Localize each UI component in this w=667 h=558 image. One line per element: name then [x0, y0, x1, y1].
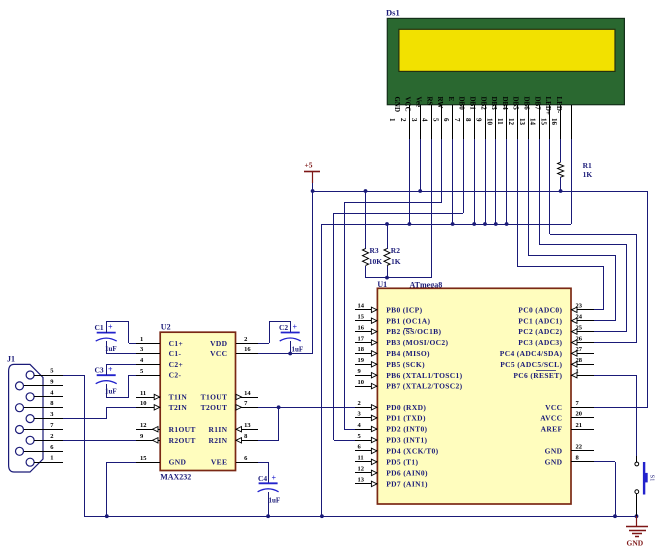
wire switch S1 bottom to ground rail	[636, 494, 638, 516]
chip U1 ATmega8 body	[377, 288, 571, 504]
svg-text:DB0: DB0	[458, 97, 466, 111]
wire C4 bottom to ground rail	[266, 492, 270, 518]
svg-text:R1OUT: R1OUT	[169, 425, 196, 434]
wire R3 top from +5 rail	[364, 189, 368, 249]
svg-text:13: 13	[518, 118, 526, 126]
svg-text:R1: R1	[583, 161, 592, 170]
svg-text:DB3: DB3	[490, 97, 498, 111]
svg-text:22: 22	[576, 444, 583, 451]
chip U1 left pin stubs with numbers	[355, 303, 377, 487]
svg-text:2: 2	[50, 433, 53, 440]
svg-text:17: 17	[358, 335, 365, 342]
svg-text:13: 13	[358, 477, 365, 484]
svg-text:PB3 (MOSI/OC2): PB3 (MOSI/OC2)	[386, 338, 448, 347]
svg-text:1uF: 1uF	[292, 346, 304, 354]
svg-text:9: 9	[475, 118, 483, 122]
svg-text:14: 14	[244, 390, 251, 397]
svg-text:3: 3	[410, 118, 418, 122]
wire C3 bottom to U2 C2-	[106, 375, 136, 398]
svg-text:T1IN: T1IN	[169, 393, 188, 402]
svg-text:15: 15	[358, 314, 365, 321]
connector J1 DB9 shell	[9, 364, 43, 472]
svg-text:27: 27	[576, 346, 583, 353]
wire R2 bottom	[387, 266, 389, 278]
resistor R1	[558, 161, 593, 179]
connector J1 pins and circles	[16, 368, 64, 467]
LCD display Ds1 body	[387, 18, 624, 104]
svg-text:AREF: AREF	[541, 425, 563, 434]
svg-text:R2IN: R2IN	[208, 436, 227, 445]
svg-text:14: 14	[529, 118, 537, 126]
svg-text:1K: 1K	[391, 257, 401, 266]
wire U1 GND pin8 to ground rail	[594, 462, 617, 519]
wire divider node to LCD Vee	[366, 276, 431, 280]
svg-text:LED-: LED-	[555, 97, 563, 114]
svg-text:14: 14	[358, 303, 365, 310]
chip U2 left pins	[136, 336, 196, 467]
svg-text:PC1 (ADC1): PC1 (ADC1)	[518, 316, 562, 325]
svg-text:R2OUT: R2OUT	[169, 436, 196, 445]
svg-text:PC6 (RESET): PC6 (RESET)	[513, 371, 562, 380]
svg-text:28: 28	[576, 357, 583, 364]
svg-text:DB4: DB4	[501, 97, 509, 111]
svg-text:C1-: C1-	[169, 349, 182, 358]
wire U2 T2OUT to U1 PD0	[258, 405, 355, 409]
connector J1 designator	[7, 355, 15, 364]
wire C3 top to U2 C2+	[106, 364, 136, 375]
capacitor C1	[95, 323, 117, 353]
svg-text:10K: 10K	[369, 257, 383, 266]
wire J1 pin2 to U2 R2OUT	[63, 440, 136, 442]
svg-text:10: 10	[140, 400, 147, 407]
svg-text:PB7 (XTAL2/TOSC2): PB7 (XTAL2/TOSC2)	[386, 382, 462, 391]
svg-text:12: 12	[507, 118, 515, 126]
wire U1 PC6 to switch	[594, 375, 637, 456]
svg-text:16: 16	[358, 324, 365, 331]
svg-text:+: +	[108, 365, 113, 374]
svg-text:VCC: VCC	[404, 97, 412, 112]
svg-text:15: 15	[140, 455, 147, 462]
svg-text:PC0 (ADC0): PC0 (ADC0)	[518, 305, 562, 314]
svg-text:C4: C4	[258, 474, 267, 483]
svg-text:Vee: Vee	[415, 97, 423, 108]
svg-text:DB7: DB7	[533, 97, 541, 111]
svg-text:10: 10	[485, 118, 493, 126]
wire LCD pin9 D2 to ground rail	[494, 139, 498, 226]
chip U1 name	[410, 281, 443, 290]
svg-text:PB5 (SCK): PB5 (SCK)	[386, 360, 425, 369]
svg-text:+: +	[272, 474, 277, 483]
wire LCD pin10 D3 to ground rail	[505, 139, 509, 226]
svg-text:PC5 (ADC5/SCL): PC5 (ADC5/SCL)	[500, 360, 562, 369]
svg-text:VEE: VEE	[211, 458, 227, 467]
capacitor C4	[258, 474, 281, 505]
svg-text:LED+: LED+	[544, 97, 552, 115]
svg-text:10: 10	[358, 379, 365, 386]
wire LCD pin16 L- to ground rail	[571, 139, 573, 224]
svg-text:DB2: DB2	[479, 97, 487, 111]
wire J1 pin3 to U2 T2IN	[63, 407, 136, 419]
svg-text:19: 19	[358, 357, 365, 364]
svg-text:PD5 (T1): PD5 (T1)	[386, 458, 418, 467]
svg-text:RW: RW	[436, 97, 444, 109]
wire ground rail upper	[320, 224, 571, 518]
svg-text:PD0 (RXD): PD0 (RXD)	[386, 403, 426, 412]
svg-text:E: E	[447, 97, 455, 102]
svg-text:16: 16	[244, 346, 251, 353]
wire R2 top from ground rail	[385, 222, 389, 249]
LCD display Ds1 label	[386, 8, 400, 18]
svg-text:U2: U2	[161, 323, 171, 332]
svg-text:S1: S1	[649, 475, 656, 482]
wire +5 feed to U2 VCC	[258, 191, 313, 355]
ground symbol GND	[626, 516, 648, 548]
svg-text:21: 21	[576, 422, 583, 429]
svg-text:PB2 (SS/OC1B): PB2 (SS/OC1B)	[386, 327, 441, 336]
wire T2OUT node to R2IN	[258, 407, 279, 441]
chip U2 MAX232 body	[160, 332, 235, 470]
svg-text:C1+: C1+	[169, 339, 184, 348]
wire RS rail	[344, 202, 442, 430]
svg-text:11: 11	[496, 118, 504, 125]
chip U1 left pin names	[386, 305, 462, 488]
svg-text:PC2 (ADC2): PC2 (ADC2)	[518, 327, 562, 336]
chip U1 right PC pin stubs with numbers	[571, 303, 594, 378]
wire LCD pin2 VCC to +5 rail	[418, 139, 422, 193]
svg-text:R2: R2	[391, 246, 400, 255]
wire LCD pin6 E bus	[463, 139, 465, 213]
svg-text:GND: GND	[169, 458, 187, 467]
svg-text:PB0 (ICP): PB0 (ICP)	[386, 305, 422, 314]
svg-text:PD1 (TXD): PD1 (TXD)	[386, 414, 426, 423]
svg-text:11: 11	[358, 455, 364, 462]
svg-text:15: 15	[539, 118, 547, 126]
wire LCD pin4 RS bus	[441, 139, 443, 202]
switch S1	[635, 456, 656, 495]
svg-text:VDD: VDD	[210, 339, 228, 348]
wire C1 top to U2 C1+	[106, 321, 136, 344]
wire U2 VDD to C2 top	[258, 321, 291, 344]
wire R3 bottom	[365, 266, 367, 278]
resistor R2	[384, 246, 401, 266]
svg-text:1K: 1K	[583, 170, 593, 179]
svg-text:J1: J1	[7, 355, 15, 364]
svg-text:C2: C2	[279, 323, 288, 332]
svg-text:R3: R3	[370, 246, 379, 255]
svg-text:24: 24	[576, 314, 583, 321]
capacitor C3	[95, 365, 117, 395]
svg-text:18: 18	[358, 346, 365, 353]
svg-text:20: 20	[576, 411, 583, 418]
svg-text:C2-: C2-	[169, 371, 182, 380]
wire U2 VEE to C4	[258, 462, 269, 483]
wire LCD pin1 GND to ground rail	[408, 139, 412, 226]
wire +5 rail to U1 VCC	[313, 191, 648, 408]
svg-text:11: 11	[140, 390, 146, 397]
wire +5 stem to rail	[311, 183, 315, 193]
chip U2 right pins	[201, 336, 258, 467]
svg-text:PD6 (AIN0): PD6 (AIN0)	[386, 469, 428, 478]
svg-text:26: 26	[576, 335, 583, 342]
wire LCD pin3 Vee to contrast divider	[431, 139, 433, 278]
svg-text:23: 23	[576, 303, 583, 310]
svg-text:VCC: VCC	[545, 403, 562, 412]
svg-text:DB1: DB1	[469, 97, 477, 111]
svg-text:4: 4	[421, 118, 429, 122]
svg-text:1uF: 1uF	[269, 497, 281, 505]
svg-text:PD4 (XCK/T0): PD4 (XCK/T0)	[386, 447, 438, 456]
svg-text:T2IN: T2IN	[169, 403, 188, 412]
LCD display Ds1 screen	[399, 29, 615, 71]
svg-text:R1IN: R1IN	[208, 425, 227, 434]
wire LCD pin8 D1 to ground rail	[483, 139, 487, 226]
svg-text:PD7 (AIN1): PD7 (AIN1)	[386, 480, 428, 489]
svg-text:PB4 (MISO): PB4 (MISO)	[386, 349, 430, 358]
wire LCD pin5 RW to ground rail	[451, 139, 455, 226]
wire J1 pin5 to ground rail	[63, 375, 85, 516]
svg-text:7: 7	[453, 118, 461, 122]
svg-text:T1OUT: T1OUT	[201, 393, 228, 402]
wire C1 bottom to U2 C1-	[106, 341, 136, 354]
svg-text:AVCC: AVCC	[540, 414, 562, 423]
svg-text:8: 8	[464, 118, 472, 122]
svg-text:PC4 (ADC4/SDA): PC4 (ADC4/SDA)	[500, 349, 563, 358]
wire LCD pin13 D6 to PC2	[539, 139, 627, 332]
svg-text:C1: C1	[95, 323, 104, 332]
svg-text:GND: GND	[545, 447, 563, 456]
svg-text:1: 1	[140, 336, 143, 343]
capacitor C2	[279, 323, 303, 354]
svg-text:1: 1	[50, 455, 53, 462]
wire LCD pin14 D7 to PC3	[550, 139, 638, 343]
svg-text:13: 13	[244, 422, 251, 429]
svg-text:25: 25	[576, 324, 583, 331]
svg-text:6: 6	[442, 118, 450, 122]
svg-text:DB5: DB5	[512, 97, 520, 111]
svg-text:12: 12	[358, 466, 365, 473]
svg-text:+: +	[108, 323, 113, 332]
svg-text:PD2 (INT0): PD2 (INT0)	[386, 425, 427, 434]
svg-text:+5: +5	[305, 161, 313, 170]
wire R1 bottom to +5 rail	[559, 177, 563, 193]
svg-text:+: +	[293, 323, 298, 332]
wire E rail	[334, 213, 464, 441]
svg-text:16: 16	[550, 118, 558, 126]
svg-text:PC3 (ADC3): PC3 (ADC3)	[518, 338, 562, 347]
svg-text:GND: GND	[545, 458, 563, 467]
svg-text:GND: GND	[627, 539, 644, 548]
svg-text:VCC: VCC	[210, 349, 227, 358]
chip U1 power pins VCC AVCC AREF GND	[540, 400, 594, 466]
svg-text:C3: C3	[95, 366, 104, 375]
svg-text:2: 2	[358, 400, 361, 407]
svg-text:PD3 (INT1): PD3 (INT1)	[386, 436, 427, 445]
svg-text:T2OUT: T2OUT	[201, 403, 228, 412]
chip U1 right PC pin names	[500, 305, 563, 379]
wire LCD pin15 L+ upper lead to R1	[560, 139, 562, 162]
svg-text:PB1 (OC1A): PB1 (OC1A)	[386, 316, 430, 325]
svg-text:1: 1	[388, 118, 396, 122]
chip U2 name	[160, 473, 191, 482]
svg-text:2: 2	[244, 336, 247, 343]
svg-text:MAX232: MAX232	[160, 473, 191, 482]
chip U1 designator	[377, 280, 387, 289]
svg-text:GND: GND	[393, 97, 401, 113]
svg-text:RS: RS	[425, 97, 433, 106]
svg-text:12: 12	[140, 422, 147, 429]
wire LCD pin11 D4 to PC0	[517, 139, 604, 310]
svg-text:1: 1	[576, 368, 579, 375]
svg-text:C2+: C2+	[169, 360, 184, 369]
svg-text:5: 5	[431, 118, 439, 122]
chip U2 designator	[161, 323, 171, 332]
LCD pin name and number labels	[388, 97, 563, 126]
resistor R3	[363, 246, 383, 266]
svg-text:DB6: DB6	[523, 97, 531, 111]
ground rail bottom	[84, 514, 638, 518]
svg-text:Ds1: Ds1	[386, 8, 400, 18]
wire C2 bottom to VCC node	[290, 341, 292, 354]
wire LCD pin7 D0 to ground rail	[472, 139, 476, 226]
svg-text:2: 2	[399, 118, 407, 122]
power symbol +5	[304, 161, 320, 184]
LCD pin stubs 1-16	[410, 105, 572, 139]
wire LCD pin12 D5 to PC1	[528, 139, 616, 321]
svg-text:PB6 (XTAL1/TOSC1): PB6 (XTAL1/TOSC1)	[386, 371, 462, 380]
wire U2 GND to ground rail	[105, 462, 136, 518]
